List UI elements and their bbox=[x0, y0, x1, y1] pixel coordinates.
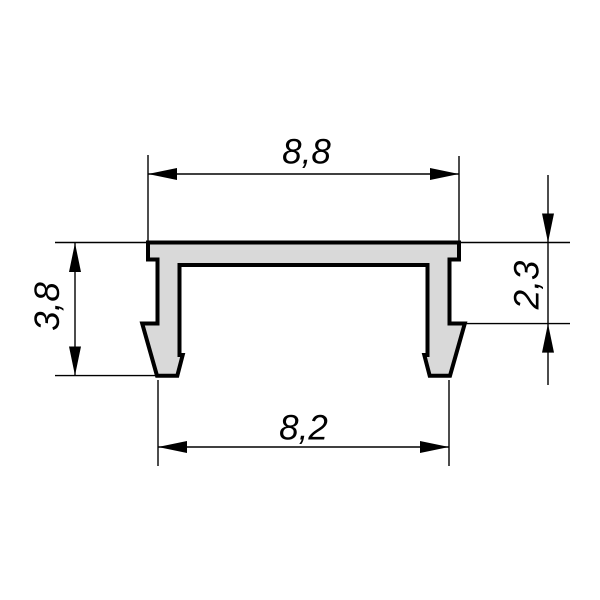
svg-text:2,3: 2,3 bbox=[508, 260, 547, 310]
svg-text:8,8: 8,8 bbox=[282, 133, 331, 172]
svg-text:3,8: 3,8 bbox=[28, 282, 67, 331]
svg-text:8,2: 8,2 bbox=[279, 409, 328, 448]
